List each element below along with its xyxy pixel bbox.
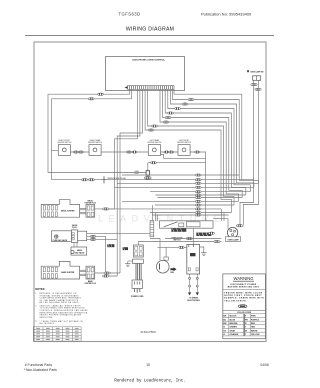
svg-text:PINK: PINK [251, 316, 256, 318]
oven lamp receptacle [227, 227, 237, 237]
wire lamp plug to bar [213, 219, 228, 229]
connector harness run 1 [188, 98, 194, 100]
wire valve top [87, 232, 153, 234]
svg-text:GRAY: GRAY [230, 329, 236, 332]
connector harness run 5 [165, 116, 171, 118]
wire bar drop 2 [154, 213, 156, 222]
wire spark module top feed [193, 228, 195, 244]
connector on igniter bus wire [88, 98, 94, 100]
wire bar drop right 2 [223, 213, 225, 222]
wire bar drop 1 [151, 205, 153, 221]
svg-text:YELLOW: YELLOW [251, 334, 260, 336]
warning box [223, 274, 266, 339]
igniter switch S1 RIGHT FRONT [57, 140, 72, 156]
warning subtitle [228, 284, 260, 288]
connector harness run 7 [152, 125, 158, 127]
wire harness row 2 [117, 182, 258, 184]
wire harness row 1 [122, 174, 239, 176]
oven valve label [72, 224, 78, 230]
temperature probe jack [102, 176, 127, 183]
connector on oven light feed [151, 162, 157, 164]
footer rendered by [114, 379, 185, 384]
wire harness row 9 [103, 208, 222, 210]
wire label tag 2 [123, 247, 128, 250]
broil igniter plug label [85, 201, 97, 205]
wire gauge table [33, 327, 81, 341]
svg-text:IGNITER PLUG: IGNITER PLUG [85, 283, 97, 285]
wire harness row 4 [150, 191, 250, 193]
svg-text:BLACK: BLACK [230, 315, 238, 318]
connector row 3 [195, 186, 201, 188]
igniter switch S4 LEFT FRONT [177, 140, 192, 156]
connector bake [104, 272, 110, 274]
svg-text:BEFORE SERVICING UNIT: BEFORE SERVICING UNIT [228, 286, 260, 288]
connector harness run 6 [163, 121, 169, 123]
igniter switch S3 LEFT REAR [147, 139, 162, 156]
watermark LEADVENTURE [98, 214, 225, 224]
svg-text:SERVICING.: SERVICING. [40, 317, 54, 319]
publication number [201, 11, 252, 16]
wire EOC harness run 4 [165, 89, 246, 195]
connector harness run 8 [148, 129, 154, 131]
svg-text:ELECTRODES: ELECTRODES [187, 300, 200, 302]
svg-text:TAN: TAN [251, 326, 256, 329]
connector row 10 [195, 211, 201, 213]
wire harness row 10 [150, 212, 231, 214]
wire igniter chain segment 5 [190, 152, 206, 221]
bake gas valve V2 [71, 243, 87, 256]
svg-text:04/06: 04/06 [260, 363, 269, 367]
svg-text:W: W [245, 330, 247, 332]
power cord plug [131, 280, 144, 298]
wire chain to oven light feed [148, 162, 206, 164]
warning divider 2 [223, 310, 266, 312]
connector lamp switch upper [251, 80, 257, 85]
wire EOC harness run 6 [160, 89, 239, 201]
diagram border frame [34, 42, 266, 342]
note 1 [35, 292, 81, 304]
wire EOC harness run 1 [173, 89, 259, 183]
svg-text:GAS VALVE: GAS VALVE [75, 252, 85, 255]
wire EOC harness run 7 [148, 89, 234, 205]
connector row 8 [195, 204, 201, 206]
svg-text:BROWN: BROWN [230, 323, 238, 325]
door switch hatch block 1 [171, 229, 186, 232]
connector row 6 [195, 196, 201, 198]
svg-text:WARNING: WARNING [233, 276, 253, 281]
ground G2 spark module [200, 247, 207, 256]
wire harness row 11 [152, 214, 229, 216]
power connector stack [132, 245, 143, 264]
connector row 4 [195, 191, 201, 193]
wire EOC to left bus 1 [120, 89, 143, 273]
wire bar drop 3 [157, 215, 159, 221]
svg-text:PURPLE: PURPLE [251, 319, 260, 321]
wire EOC harness run 2 [171, 89, 254, 187]
connector row 9 [195, 208, 201, 210]
wire bar drop right 1 [220, 209, 222, 221]
svg-text:EXAMPLE: GREEN WIRE WITH: EXAMPLE: GREEN WIRE WITH [224, 297, 264, 300]
wire igniter chain segment 3 [101, 151, 148, 153]
connector above lamp plug [236, 225, 243, 227]
svg-text:OVEN LAMP: OVEN LAMP [227, 238, 239, 241]
oven gas valve V1 [52, 231, 72, 242]
wire EOC to left bus 3 [115, 89, 138, 209]
broil igniter E1 [41, 200, 94, 218]
wire igniter return line [160, 155, 205, 159]
note 3 [35, 320, 83, 325]
wire EOC harness run 3 [168, 89, 251, 191]
tracer wire symbol [238, 305, 247, 308]
connector valve low [90, 238, 95, 240]
svg-text:TGFS63D: TGFS63D [119, 11, 141, 16]
oven lamp label box [225, 237, 240, 242]
wire igniter chain segment 4 [160, 151, 178, 153]
connector spark module left [158, 246, 187, 248]
wire fan to rows [165, 247, 167, 257]
svg-text:RED: RED [251, 323, 256, 325]
svg-text:BAKE IGNITER: BAKE IGNITER [61, 271, 75, 274]
wire EOC harness run 8 [145, 89, 231, 212]
wire EOC to left bus 2 [117, 89, 140, 276]
note 2 [35, 304, 88, 319]
svg-text:IGNITER SWITCH: IGNITER SWITCH [57, 142, 72, 144]
connector row 11 [195, 214, 201, 216]
door switch label [171, 238, 183, 242]
svg-text:BLUE: BLUE [230, 319, 236, 321]
door switch hatch block 2 [196, 233, 211, 237]
fan motor label arrow [170, 267, 176, 274]
svg-text:BROIL: BROIL [88, 201, 93, 203]
junction blob oven light to probe line [145, 175, 152, 179]
wire harness row 8 [155, 204, 234, 206]
connector harness run 4 [168, 112, 174, 114]
svg-text:IGNITER SWITCH: IGNITER SWITCH [88, 142, 103, 144]
wire label tag 1 [107, 244, 114, 247]
oven lamp switch body [253, 76, 261, 81]
wire lamp switch pair down [240, 86, 254, 225]
connector row 7 [195, 200, 201, 202]
igniter switch S2 RIGHT REAR [88, 139, 103, 156]
connector harness run 2 [182, 103, 188, 105]
wire EOC harness run 5 [163, 89, 243, 197]
warning title [233, 276, 254, 281]
svg-text:Publication No: 5995433409: Publication No: 5995433409 [201, 11, 252, 16]
footer date [260, 363, 269, 367]
fan motor M1 [157, 257, 170, 273]
wire row below bar 1 [150, 237, 221, 260]
bake igniter plug label [85, 280, 97, 285]
wire valve mid loop [87, 236, 118, 276]
connector row 1 [195, 174, 201, 176]
svg-text:ORANGE: ORANGE [230, 333, 239, 336]
svg-text:TRACER WIRE: WIRE COLOR: TRACER WIRE: WIRE COLOR [224, 291, 262, 294]
connector valve mid [90, 235, 95, 237]
wire igniter chain segment 2 [70, 151, 89, 153]
connector pair on probe line [82, 179, 95, 181]
connector pair between S2 S3 [127, 151, 137, 153]
ground G1 [125, 261, 132, 267]
spark output wires [188, 274, 199, 296]
svg-text:POWER CORD: POWER CORD [131, 296, 144, 298]
connector pair between S3 S4 [164, 151, 174, 153]
svg-text:OVEN LAMP SW: OVEN LAMP SW [250, 70, 264, 73]
color code header [237, 312, 252, 314]
connector probe line right [195, 179, 201, 181]
svg-text:ALL MODELS.: ALL MODELS. [40, 322, 56, 325]
svg-text:OVEN GAS VALVE: OVEN GAS VALVE [52, 239, 68, 242]
electronic oven control board U1 [106, 57, 185, 91]
oven lamp switch assembly label [247, 70, 264, 73]
svg-text:* Non-Illustrated Parts: * Non-Illustrated Parts [24, 368, 57, 372]
connector broil [103, 208, 109, 210]
wire harness row 6 [158, 197, 243, 199]
wire EOC left end to temperature probe bus [48, 89, 150, 172]
model number title TGFS63D [119, 11, 141, 16]
wire row below bar 2 [138, 240, 221, 245]
svg-text:GREEN: GREEN [230, 327, 238, 329]
wire harness row 5 [155, 194, 245, 196]
svg-text:316417800: 316417800 [140, 330, 156, 334]
wire harness row 3 [115, 186, 254, 188]
spark electrodes label [187, 297, 200, 302]
warning divider 1 [223, 289, 266, 291]
svg-text:ELECTRONIC OVEN CONTROL: ELECTRONIC OVEN CONTROL [132, 59, 165, 61]
svg-text:WHITE: WHITE [251, 330, 258, 332]
bake igniter E2 [41, 262, 94, 280]
svg-text:TEMPERATURE PROBE: TEMPERATURE PROBE [107, 177, 127, 180]
svg-text:15: 15 [146, 363, 150, 367]
svg-text:NOTES:: NOTES: [35, 287, 45, 291]
footer functional parts [24, 363, 57, 372]
connector lamp switch lower [255, 80, 261, 90]
svg-text:YELLOW STRIPE.: YELLOW STRIPE. [224, 300, 247, 302]
wire igniter chain segment 1 [52, 150, 59, 152]
connector row 5 [195, 194, 201, 196]
title WIRING DIAGRAM [126, 26, 174, 32]
spark module A1 [187, 245, 200, 274]
svg-text:PLUG: PLUG [72, 227, 77, 229]
bar left plug hatched [150, 221, 154, 237]
wire bake to bus [95, 272, 120, 274]
wire harness row 7 [122, 200, 239, 202]
wire EOC to igniter switch bus [52, 89, 132, 179]
connector after S4 [195, 151, 200, 153]
svg-text:AS THE ORIGINAL MUST BE USED.: AS THE ORIGINAL MUST BE USED. [40, 301, 80, 304]
power cable lines [136, 264, 141, 281]
connector on loop bottom [103, 275, 109, 277]
EOC connector strip P1 [125, 86, 175, 90]
wire EOC right end run [174, 89, 242, 179]
color code table [223, 314, 266, 336]
oven gas valve connector body [71, 230, 86, 243]
header rule [25, 35, 274, 37]
oven light fuse element [134, 163, 150, 176]
svg-text:Rendered by LeadVenture, Inc.: Rendered by LeadVenture, Inc. [114, 379, 185, 384]
connector harness run 3 [175, 107, 181, 109]
diagram part number [140, 330, 156, 334]
connector pair between S1 S2 [74, 151, 84, 153]
svg-text:WIRING DIAGRAM: WIRING DIAGRAM [126, 26, 174, 32]
oven door switch bar [160, 221, 214, 228]
svg-text:NOTED FIRST, STRIPE NEXT: NOTED FIRST, STRIPE NEXT [224, 295, 262, 297]
connector row 2 [195, 182, 201, 184]
warning paragraph [224, 291, 264, 302]
svg-text:# Functional Parts: # Functional Parts [25, 363, 53, 367]
connector on probe bus wire [98, 93, 104, 95]
svg-text:BROIL IGNITER: BROIL IGNITER [61, 210, 75, 212]
connector under bar right [209, 232, 215, 234]
notes heading [35, 287, 45, 291]
wire probe line [52, 179, 254, 181]
footer page number [146, 363, 150, 367]
wire valve low [87, 238, 118, 240]
svg-text:IGNITER SWITCH: IGNITER SWITCH [147, 142, 162, 144]
svg-text:IGNITER PLUG: IGNITER PLUG [85, 203, 97, 205]
wire broil to bus [95, 208, 115, 210]
svg-text:IGNITER SWITCH: IGNITER SWITCH [177, 142, 192, 144]
